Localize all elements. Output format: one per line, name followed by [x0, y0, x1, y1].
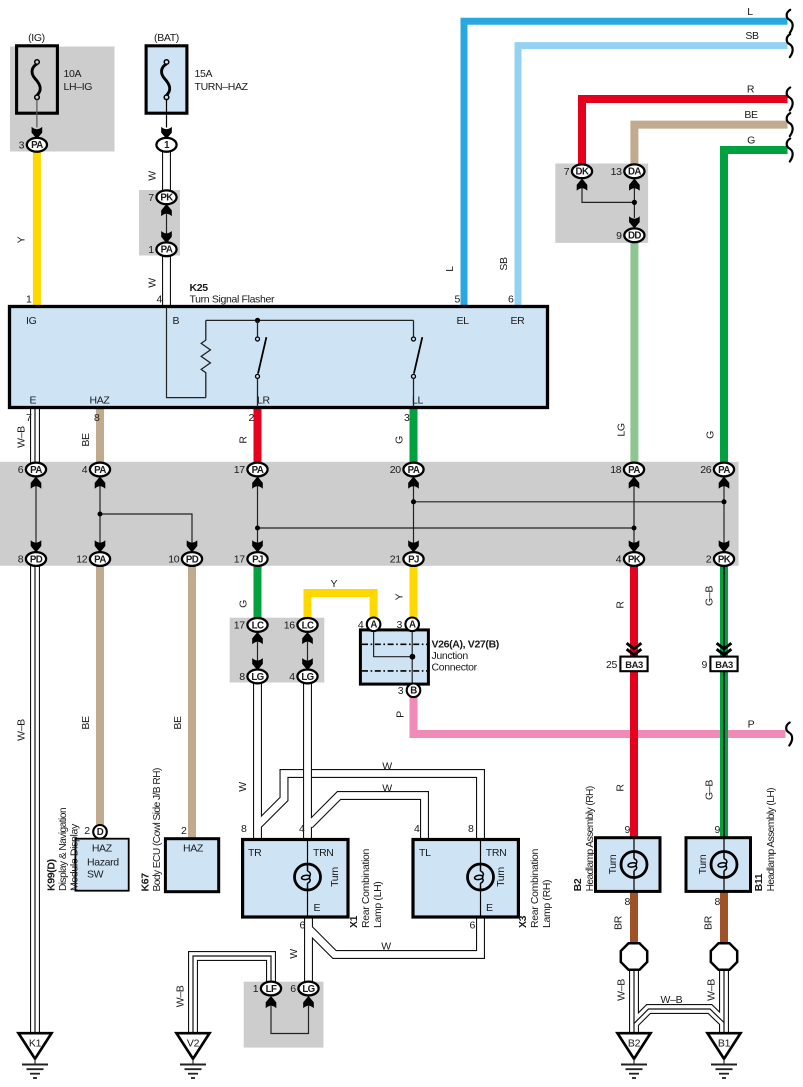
svg-text:B: B — [410, 686, 417, 697]
component name X1 Rear Combination Lamp (LH) — [348, 848, 384, 928]
svg-text:R: R — [615, 784, 627, 792]
labels inside X3 — [419, 847, 506, 914]
svg-text:PJ: PJ — [408, 554, 419, 565]
junction connector pin 3 A — [397, 618, 420, 632]
shade box around (IG) fuse — [10, 47, 115, 152]
svg-text:TURN–HAZ: TURN–HAZ — [195, 81, 249, 93]
connector 4 PA — [82, 463, 110, 477]
arrow into connector 3 PA — [32, 127, 43, 139]
wire label SB vertical — [498, 257, 510, 271]
wire G-B from connector 2 PK to headlamp B11 pin 9 — [720, 565, 728, 838]
lamp feed line inside B2 — [633, 839, 635, 891]
svg-text:Headlamp Assembly (LH): Headlamp Assembly (LH) — [766, 788, 777, 892]
wire label W-B horizontal ground link — [661, 994, 683, 1006]
component K99(D) hazard switch body — [75, 839, 128, 891]
svg-text:W: W — [147, 278, 159, 288]
svg-text:6: 6 — [470, 920, 476, 932]
wire label W-B below K25 E — [15, 426, 27, 448]
label HAZ inside K67 — [183, 843, 204, 855]
wire BR from headlamp B11 pin 8 to splice octagon — [720, 892, 728, 945]
component name B11 Headlamp Assembly (LH) — [753, 788, 777, 892]
svg-text:R: R — [747, 84, 755, 96]
lead from fuse 10A to connector 3 PA — [36, 100, 38, 128]
svg-text:PD: PD — [186, 554, 199, 565]
switch LL (K25 internal) — [412, 320, 423, 407]
fuse 15A TURN-HAZ — [146, 46, 187, 113]
svg-text:PA: PA — [628, 465, 640, 476]
svg-text:17: 17 — [234, 554, 245, 566]
wire BE from K25 HAZ pin 8 to connector 4 PA — [96, 408, 104, 464]
page break on wire G — [787, 139, 793, 162]
wire Y from fuse connector 3 PA to K25 pin 1 IG — [33, 151, 41, 307]
junction node on 4 PA link — [98, 512, 103, 517]
svg-text:6: 6 — [300, 920, 306, 932]
page break on wire L — [787, 10, 793, 33]
wire label P vertical — [395, 711, 407, 718]
svg-text:PA: PA — [31, 140, 43, 151]
wire BR from headlamp B2 pin 8 to splice octagon — [630, 892, 638, 945]
lead from fuse 15A to connector 1 — [166, 100, 168, 128]
wire label BR on B11 side — [703, 915, 715, 930]
svg-text:W: W — [382, 783, 392, 795]
wire label BE to K67 — [172, 716, 184, 730]
svg-text:LH–IG: LH–IG — [64, 81, 93, 93]
arrow into connector 1 — [161, 127, 172, 139]
component B11 Headlamp Assembly LH body — [686, 838, 751, 892]
wire label P horizontal — [748, 719, 755, 731]
svg-text:BE: BE — [80, 716, 92, 730]
component name K99(D) Display & Navigation Module Display — [46, 808, 81, 891]
svg-text:6: 6 — [290, 983, 296, 995]
wire label G to 17 LC — [238, 600, 250, 608]
shade box around connectors 7 DK / 13 DA / 9 DD — [555, 164, 648, 243]
svg-text:W–B: W–B — [661, 994, 683, 1006]
wire W net from connector 4 LG to lamp X1 TRN pin 4 and lamp X3 TL pin 4 — [308, 683, 425, 840]
connector 6 LG — [290, 982, 318, 996]
wire label R above headlamp B2 — [615, 784, 627, 792]
component name K25 Turn Signal Flasher — [190, 282, 275, 306]
svg-text:Turn Signal Flasher: Turn Signal Flasher — [190, 294, 275, 306]
svg-text:8: 8 — [715, 896, 721, 908]
svg-text:W: W — [147, 171, 159, 181]
svg-text:LL: LL — [412, 395, 423, 407]
wire label W below 1 PA — [147, 278, 159, 288]
divider line inside X3 — [480, 841, 482, 916]
svg-text:Turn: Turn — [607, 854, 619, 874]
svg-text:10: 10 — [168, 554, 179, 566]
svg-text:TL: TL — [419, 847, 431, 859]
svg-text:B11: B11 — [753, 873, 765, 891]
svg-text:4: 4 — [299, 823, 305, 835]
wire label BE to hazard switch — [80, 716, 92, 730]
wire label W-B on B2 ground wire — [616, 979, 628, 1001]
junction connector V26(A) V27(B) body — [360, 630, 428, 684]
wire SB from page break to K25 pin 6 ER — [518, 46, 788, 307]
wire R from K25 LR pin 2 to connector 17 PA — [254, 408, 262, 464]
wire label W-B to ground K1 — [15, 719, 27, 741]
svg-text:D: D — [97, 827, 104, 838]
svg-text:SW: SW — [87, 869, 104, 881]
svg-text:E: E — [30, 395, 37, 407]
svg-text:LG: LG — [615, 423, 627, 436]
svg-text:ER: ER — [511, 315, 526, 327]
svg-text:3: 3 — [397, 619, 403, 631]
label Turn inside X1 — [329, 867, 341, 887]
pin numbers on B2 — [625, 824, 631, 908]
svg-text:V26(A), V27(B): V26(A), V27(B) — [432, 638, 499, 650]
pin labels of K25 — [26, 315, 525, 407]
svg-text:Connector: Connector — [432, 661, 478, 673]
svg-text:9: 9 — [616, 230, 622, 242]
wire internal from K25 pin B to resistor — [167, 307, 206, 398]
wire label L horizontal — [747, 6, 753, 18]
lamp feed line inside B11 — [723, 839, 725, 891]
svg-text:PK: PK — [160, 193, 173, 204]
svg-text:Headlamp Assembly (RH): Headlamp Assembly (RH) — [585, 786, 596, 891]
link from 18 PA to 4 PK — [629, 477, 640, 489]
wire label Y horizontal — [330, 578, 337, 590]
wire label W to X1 TR — [237, 782, 249, 792]
page break on wire R — [787, 88, 793, 111]
connector 17 PA — [234, 463, 268, 477]
svg-text:DD: DD — [628, 231, 641, 242]
svg-text:LG: LG — [302, 984, 314, 995]
shade band for instrument panel connectors — [0, 462, 739, 566]
wire label LG — [615, 423, 627, 436]
svg-text:LG: LG — [301, 672, 313, 683]
wire internal from 3 A to 3 B — [411, 631, 413, 683]
svg-text:Display & Navigation: Display & Navigation — [58, 808, 69, 891]
svg-text:G–B: G–B — [704, 586, 716, 606]
connector 26 PA — [700, 463, 734, 477]
wire Y from connector 16 LC to junction connector 4 A — [308, 593, 374, 620]
arrow into 10 PD — [187, 540, 198, 552]
wire label BE below K25 HAZ — [80, 433, 92, 447]
svg-text:G: G — [705, 431, 717, 439]
svg-text:TRN: TRN — [486, 847, 507, 859]
ground K1 — [19, 1033, 52, 1078]
junction node on 18 PA link — [632, 526, 637, 531]
svg-text:1: 1 — [148, 244, 154, 256]
label (IG) — [28, 32, 45, 44]
wire label G-B above headlamp B11 — [704, 780, 716, 800]
svg-text:W–B: W–B — [174, 985, 186, 1007]
ground B1 — [708, 1033, 741, 1078]
svg-text:15A: 15A — [195, 68, 213, 80]
wire W-B from connector 1 LF to ground V2 — [193, 956, 271, 1033]
svg-text:PA: PA — [94, 465, 106, 476]
svg-text:Y: Y — [394, 593, 406, 600]
svg-text:HAZ: HAZ — [92, 843, 113, 855]
connector 12 PA — [76, 552, 110, 566]
fuse 10A LH-IG — [17, 46, 58, 113]
svg-text:W: W — [288, 949, 300, 959]
connector 17 PJ — [234, 552, 268, 566]
label 10A LH-IG — [64, 68, 93, 93]
wire label Y to 3 A — [394, 593, 406, 600]
svg-text:PK: PK — [718, 554, 731, 565]
svg-text:K99(D): K99(D) — [46, 859, 58, 891]
connector 9 DD — [616, 228, 644, 242]
svg-text:L: L — [444, 266, 456, 272]
wire BE from page break to connector 13 DA — [634, 125, 787, 166]
wire label W-B on B1 ground wire — [706, 979, 718, 1001]
connector 7 DK — [564, 164, 592, 178]
svg-text:L: L — [747, 6, 753, 18]
connector 4 PK — [616, 552, 644, 566]
page break on wire P — [786, 723, 792, 746]
svg-text:P: P — [395, 711, 407, 718]
svg-text:2: 2 — [706, 554, 712, 566]
wire W from fuse connector 1 through 7 PK / 1 PA to K25 pin 4 B — [162, 151, 171, 307]
component B2 Headlamp Assembly RH body — [596, 838, 661, 892]
svg-text:Rear Combination: Rear Combination — [360, 848, 372, 928]
component name X3 Rear Combination Lamp (RH) — [517, 848, 553, 928]
labels inside X1 — [248, 847, 334, 914]
label Turn inside X3 — [495, 867, 507, 887]
svg-text:13: 13 — [611, 166, 622, 178]
svg-text:X3: X3 — [517, 915, 529, 928]
wire label G-B above 9 BA3 — [704, 586, 716, 606]
svg-text:W: W — [381, 941, 391, 953]
svg-text:4: 4 — [157, 294, 163, 306]
pin numbers on B11 — [715, 824, 721, 908]
wire BE from connector 12 PA to hazard switch connector 2 D — [96, 565, 104, 827]
svg-text:V2: V2 — [187, 1038, 200, 1050]
wire label W-B to ground V2 — [174, 985, 186, 1007]
svg-text:17: 17 — [234, 620, 245, 632]
svg-text:2: 2 — [84, 825, 90, 837]
svg-text:8: 8 — [18, 554, 24, 566]
component name V26(A) V27(B) Junction Connector — [432, 638, 499, 673]
svg-text:2: 2 — [181, 825, 187, 837]
junction connector pin 4 A — [358, 618, 381, 632]
svg-text:Body ECU (Cowl Side J/B RH): Body ECU (Cowl Side J/B RH) — [152, 768, 163, 891]
svg-text:Y: Y — [16, 236, 28, 243]
wire label W to 6 LG — [288, 949, 300, 959]
arrow link below 13 DA — [629, 179, 640, 191]
svg-text:K25: K25 — [190, 282, 209, 294]
svg-text:1: 1 — [26, 294, 32, 306]
connector 2 PK — [706, 552, 734, 566]
splice octagon on B2 ground wire — [621, 943, 647, 969]
wire R from connector 4 PK to headlamp B2 pin 9 — [630, 565, 638, 838]
svg-text:7: 7 — [26, 412, 32, 424]
svg-text:4: 4 — [616, 554, 622, 566]
connector 8 PD — [18, 552, 46, 566]
wire label W horizontal lower — [382, 783, 392, 795]
svg-text:4: 4 — [82, 464, 88, 476]
svg-text:E: E — [486, 902, 493, 914]
svg-text:PA: PA — [718, 465, 730, 476]
wire G from page break to connector 26 PA — [724, 150, 788, 463]
wire label L vertical — [444, 266, 456, 272]
svg-text:G: G — [747, 135, 755, 147]
wire label BR on B2 side — [613, 915, 625, 930]
connector 21 PJ — [390, 552, 424, 566]
wire label R horizontal — [747, 84, 755, 96]
svg-text:9: 9 — [702, 659, 708, 671]
svg-text:1: 1 — [253, 983, 259, 995]
connector 16 LC — [284, 618, 318, 632]
svg-text:(BAT): (BAT) — [154, 32, 179, 44]
component X3 Rear Combination Lamp RH body — [413, 840, 518, 918]
svg-text:W–B: W–B — [616, 979, 628, 1001]
page break on wire SB — [787, 34, 793, 57]
label (BAT) — [154, 32, 179, 44]
svg-text:3: 3 — [19, 139, 25, 151]
wire internal from resistor to switches — [206, 319, 414, 321]
svg-text:B2: B2 — [572, 878, 584, 891]
arrow link below 7 DK — [577, 179, 588, 191]
svg-text:LG: LG — [251, 672, 263, 683]
wire label W horizontal upper — [382, 761, 392, 773]
link from 6 PA to 8 PD — [31, 477, 42, 489]
component K67 Body ECU body — [165, 839, 218, 892]
component name K67 Body ECU (Cowl Side J/B RH) — [140, 768, 164, 891]
svg-text:10A: 10A — [64, 68, 82, 80]
connector 1 LF — [253, 982, 281, 996]
link from 17 LC to 8 LG — [252, 632, 263, 644]
svg-text:LC: LC — [302, 620, 314, 631]
pin numbers on X1 — [241, 823, 306, 932]
svg-text:R: R — [238, 436, 250, 444]
svg-text:B: B — [173, 315, 180, 327]
wire W-B from K25 pin 7 E through connectors 6 PA / 8 PD to ground K1 — [30, 408, 40, 1034]
junction connector pin 3 B — [398, 684, 421, 698]
svg-text:9: 9 — [715, 824, 721, 836]
shade box around connectors 7 PK / 1 PA — [139, 190, 180, 256]
connector 9 BA3 on wire G-B — [702, 643, 738, 671]
svg-text:Turn: Turn — [495, 867, 507, 887]
connector 13 DA — [611, 164, 645, 178]
svg-text:BE: BE — [80, 433, 92, 447]
wire LG from connector 9 DD to connector 18 PA — [630, 241, 638, 463]
ground B2 — [618, 1033, 651, 1078]
svg-text:BR: BR — [613, 915, 625, 930]
junction node (K25 internal) — [255, 318, 260, 323]
svg-text:(IG): (IG) — [28, 32, 45, 44]
svg-text:LF: LF — [266, 984, 277, 995]
svg-text:2: 2 — [249, 412, 255, 424]
junction node inside V26/V27 — [410, 654, 416, 660]
svg-text:R: R — [615, 601, 627, 609]
wire L from page break to K25 pin 5 EL — [464, 21, 788, 307]
svg-text:21: 21 — [390, 554, 401, 566]
svg-text:Lamp (LH): Lamp (LH) — [372, 882, 384, 928]
labels inside hazard switch — [87, 843, 119, 881]
connector 1 under fuse 15A — [156, 138, 176, 152]
svg-text:LR: LR — [257, 395, 270, 407]
junction node on 20 PA link — [411, 499, 416, 504]
junction node on 17 PA link — [255, 526, 260, 531]
component X1 Rear Combination Lamp LH body — [243, 840, 348, 918]
svg-text:Hazard: Hazard — [87, 857, 119, 869]
svg-text:4: 4 — [289, 671, 295, 683]
link from 20 PA to 21 PJ and 26 PA — [408, 477, 419, 489]
switch LR (K25 internal) — [256, 320, 267, 407]
svg-text:SB: SB — [745, 30, 759, 42]
pin numbers under K25 — [26, 412, 410, 424]
wire label SB horizontal — [745, 30, 759, 42]
svg-text:IG: IG — [26, 315, 37, 327]
wire label Y — [16, 236, 28, 243]
svg-text:8: 8 — [468, 823, 474, 835]
pin numbers on X3 — [414, 823, 476, 932]
svg-text:W–B: W–B — [706, 979, 718, 1001]
svg-text:Y: Y — [330, 578, 337, 590]
svg-text:7: 7 — [564, 166, 570, 178]
junction node on 26 PA link — [722, 499, 727, 504]
wire G from K25 LL pin 3 to connector 20 PA — [410, 408, 418, 464]
wire BE from connector 10 PD to K67 pin 2 — [188, 565, 196, 840]
connector 2 D on hazard switch — [84, 825, 106, 839]
svg-text:8: 8 — [625, 896, 631, 908]
svg-text:5: 5 — [455, 294, 461, 306]
label 15A TURN-HAZ — [195, 68, 249, 93]
svg-text:SB: SB — [498, 257, 510, 271]
link from 1 LF to 6 LG — [266, 996, 277, 1008]
svg-text:7: 7 — [148, 192, 154, 204]
svg-text:LC: LC — [252, 620, 264, 631]
svg-text:PA: PA — [408, 465, 420, 476]
splice octagon on B11 ground wire — [711, 943, 737, 969]
connector 6 PA — [18, 463, 46, 477]
svg-text:PA: PA — [30, 465, 42, 476]
wire R from page break to connector 7 DK — [582, 99, 788, 166]
dash-dot bus lines inside junction connector — [362, 644, 427, 671]
label Turn inside B11 — [697, 854, 709, 874]
svg-text:PA: PA — [161, 245, 173, 256]
connector 4 LG — [289, 670, 317, 684]
relay K25 Turn Signal Flasher body — [10, 307, 548, 408]
svg-text:BR: BR — [703, 915, 715, 930]
ground V2 — [177, 1033, 210, 1078]
connector 1 PA — [148, 242, 176, 256]
link from 17 PA to 17 PJ and 18 PA — [252, 477, 263, 489]
svg-text:HAZ: HAZ — [90, 395, 111, 407]
wire label R below K25 LR — [238, 436, 250, 444]
svg-text:G–B: G–B — [704, 780, 716, 800]
pin numbers on top of K25 — [26, 294, 514, 306]
junction node in DK/DA/DD shade box — [632, 200, 637, 205]
arrow into 9 DD — [629, 216, 640, 228]
svg-text:4: 4 — [358, 619, 364, 631]
svg-text:G: G — [238, 600, 250, 608]
svg-text:K1: K1 — [29, 1038, 42, 1050]
svg-text:8: 8 — [239, 671, 245, 683]
svg-text:TRN: TRN — [313, 847, 334, 859]
svg-text:25: 25 — [606, 659, 617, 671]
label Turn inside B2 — [607, 854, 619, 874]
wire label G vertical right — [705, 431, 717, 439]
wire label R above 25 BA3 — [615, 601, 627, 609]
connector 17 LC — [234, 618, 268, 632]
svg-text:B1: B1 — [718, 1038, 731, 1050]
connector 7 PK — [148, 190, 176, 204]
svg-text:BE: BE — [172, 716, 184, 730]
svg-text:9: 9 — [625, 824, 631, 836]
wire label BE horizontal — [744, 109, 758, 121]
connector 3 PA under fuse 10A — [19, 138, 47, 152]
shade box around connectors 17 LC / 16 LC / 8 LG / 4 LG — [230, 618, 325, 683]
wire Y from connector 21 PJ to connector 3 A — [410, 565, 418, 619]
svg-text:P: P — [748, 719, 755, 731]
svg-text:PK: PK — [628, 554, 641, 565]
wire link from 7 DK to junction — [582, 188, 634, 202]
connector 18 PA — [610, 463, 644, 477]
page break on wire BE — [787, 113, 793, 136]
